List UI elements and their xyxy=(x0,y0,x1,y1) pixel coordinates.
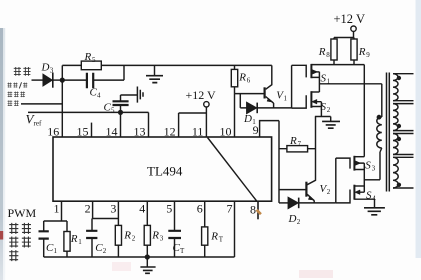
svg-text:1: 1 xyxy=(78,238,82,246)
svg-text:5: 5 xyxy=(92,56,96,64)
svg-text:1: 1 xyxy=(54,247,58,255)
svg-text:+12 V: +12 V xyxy=(334,12,365,26)
svg-text:10: 10 xyxy=(220,124,232,138)
svg-text:R: R xyxy=(84,51,92,63)
svg-text:7: 7 xyxy=(227,201,233,215)
svg-text:4: 4 xyxy=(372,195,376,203)
diode D2 xyxy=(279,202,288,204)
transistor S3 (MOSFET) xyxy=(336,158,350,169)
wire pin4 stub xyxy=(146,201,148,225)
transistor V1 xyxy=(264,87,266,98)
label 保护 xyxy=(14,67,31,76)
+12V terminal (left) xyxy=(204,102,209,107)
transformer secondary winding 2 xyxy=(393,104,414,131)
wire gate riser S1/S2 xyxy=(291,65,293,108)
resistor R9 xyxy=(351,39,357,60)
svg-text:2: 2 xyxy=(103,247,107,255)
wire pin15 stub xyxy=(91,123,93,137)
node (junction dot at D3/R5/C4/pin16) xyxy=(60,78,65,83)
wire pin6 stub xyxy=(204,201,206,227)
svg-text:TL494: TL494 xyxy=(147,164,183,179)
red mark left edge xyxy=(0,231,3,240)
svg-text:14: 14 xyxy=(106,124,118,138)
svg-text:12: 12 xyxy=(164,124,176,138)
svg-text:3: 3 xyxy=(160,235,164,243)
transformer secondary winding 3 xyxy=(393,134,414,155)
diode D1 xyxy=(240,94,247,108)
svg-text:2: 2 xyxy=(132,235,136,243)
wire S3 source / S4 drain midpoint xyxy=(363,163,365,186)
+12V terminal (right) xyxy=(351,26,356,31)
transistor S2 (MOSFET) xyxy=(292,95,307,108)
svg-text:R: R xyxy=(210,231,218,243)
svg-text:+12 V: +12 V xyxy=(186,88,217,102)
svg-text:3: 3 xyxy=(50,67,54,75)
ground (sideways, at C5) xyxy=(137,87,143,103)
svg-text:8: 8 xyxy=(250,202,256,216)
wire pin8 stub xyxy=(257,201,259,219)
capacitor C4 xyxy=(62,65,124,80)
resistor R8 xyxy=(331,39,337,60)
svg-text:D: D xyxy=(243,113,252,125)
wire top rail left xyxy=(62,64,81,66)
ground (bottom rail) xyxy=(146,257,148,267)
svg-text:D: D xyxy=(288,213,297,225)
svg-text:2: 2 xyxy=(327,106,331,114)
label 调整 xyxy=(9,223,31,234)
node (dot bottom rail) xyxy=(145,254,150,259)
label 压切换 xyxy=(8,91,26,97)
wire pin10 stub xyxy=(234,94,236,137)
svg-text:5: 5 xyxy=(111,107,115,115)
svg-text:6: 6 xyxy=(197,201,203,215)
capacitor C5 xyxy=(121,95,138,112)
svg-text:2: 2 xyxy=(297,218,301,226)
wire S4 source to ground xyxy=(354,199,374,207)
svg-text:15: 15 xyxy=(77,124,89,138)
svg-text:R: R xyxy=(238,72,246,84)
pin8 orange mark xyxy=(257,210,261,214)
svg-text:S: S xyxy=(366,190,372,202)
wire riser to top rail xyxy=(61,65,63,80)
transformer secondary winding 4 xyxy=(393,157,414,188)
svg-text:3: 3 xyxy=(372,165,376,173)
resistor R7 xyxy=(279,148,316,150)
transistor S4 (MOSFET) xyxy=(336,190,350,203)
svg-text:13: 13 xyxy=(134,124,146,138)
label 稳流/稳 xyxy=(7,82,27,88)
resistor RT xyxy=(202,227,208,245)
label 控制 xyxy=(9,236,31,247)
capacitor C2 xyxy=(91,219,93,258)
transformer primary winding xyxy=(377,117,382,148)
wire rail S1 drain to R8 R9 and down xyxy=(311,64,364,66)
wire 保护 to D3 xyxy=(32,79,44,81)
wire 稳流/稳压切换信号 xyxy=(21,103,62,105)
faint pink smudge bottom right xyxy=(299,270,333,278)
wire bottom rail xyxy=(44,256,235,258)
wire top rail (to ground and V1 collector) xyxy=(101,64,271,66)
svg-text:R: R xyxy=(123,230,131,242)
svg-text:PWM: PWM xyxy=(8,206,37,220)
transformer primary feed xyxy=(381,84,383,117)
wire gate drive (D1/V1 emitter to S1 S2 gates) xyxy=(257,107,291,109)
transformer core xyxy=(387,73,390,192)
ground (S4 source) xyxy=(364,208,385,215)
svg-text:T: T xyxy=(180,247,185,255)
wire gate drive (D2/V2 emitter to S3 S4 gates) xyxy=(299,202,336,204)
svg-text:R: R xyxy=(289,135,297,147)
wire pin5 stub xyxy=(174,201,176,231)
ground (top rail) xyxy=(154,65,156,75)
svg-text:2: 2 xyxy=(327,188,331,196)
resistor R1 xyxy=(66,221,68,257)
node (dot at C5/pin14) xyxy=(118,110,123,115)
svg-text:9: 9 xyxy=(366,51,370,59)
svg-text:3: 3 xyxy=(110,201,116,215)
svg-text:1: 1 xyxy=(284,95,288,103)
wire S2 source to ground xyxy=(315,116,331,118)
transformer secondary winding 1 xyxy=(393,74,414,101)
wire pin3 stub xyxy=(117,201,119,225)
wire pin1 stub xyxy=(44,201,67,221)
faint pink smudge bottom left xyxy=(112,262,131,271)
svg-text:R: R xyxy=(151,230,159,242)
svg-text:R: R xyxy=(70,233,78,245)
wire pin7 stub xyxy=(234,201,236,257)
resistor R5 xyxy=(81,61,101,70)
wire V1 base line xyxy=(235,93,265,95)
svg-text:R: R xyxy=(318,46,326,58)
op-amp U1 TL494 box xyxy=(53,137,272,201)
svg-text:D: D xyxy=(41,62,50,74)
resistor R3 xyxy=(144,225,150,245)
diode D3 xyxy=(43,75,52,86)
resistor R2 xyxy=(115,225,121,245)
page edge strip left xyxy=(0,28,3,280)
svg-text:ref: ref xyxy=(34,120,42,128)
svg-text:S: S xyxy=(321,73,327,85)
capacitor CT xyxy=(168,231,181,238)
wire midpoint S1/S2 to transformer primary xyxy=(319,83,381,85)
capacitor C1 xyxy=(43,221,45,257)
svg-text:T: T xyxy=(219,236,224,244)
wire pin9 stub xyxy=(260,121,279,203)
wire pin11 stub from +12V xyxy=(205,107,207,137)
svg-text:2: 2 xyxy=(85,201,91,215)
label 信号 xyxy=(8,100,19,106)
label 端 xyxy=(9,250,18,261)
resistor R6 xyxy=(234,65,236,93)
svg-text:11: 11 xyxy=(192,124,204,138)
svg-text:16: 16 xyxy=(47,124,59,138)
node (primary polarity dot) xyxy=(377,115,382,120)
svg-text:1: 1 xyxy=(54,201,60,215)
svg-text:4: 4 xyxy=(97,92,101,100)
wire pin16 vertical xyxy=(61,80,63,137)
svg-text:5: 5 xyxy=(166,201,172,215)
wire Vref to pins 14/13 xyxy=(28,111,149,113)
ground (S2 source) xyxy=(330,117,332,122)
wire pin2 stub + bridge pins 2-3 xyxy=(93,201,119,218)
transistor S1 (MOSFET) xyxy=(292,65,307,77)
svg-text:6: 6 xyxy=(247,77,251,85)
wire diagonal inside TL494 xyxy=(208,138,257,202)
page edge strip right xyxy=(416,0,421,258)
svg-text:R: R xyxy=(358,46,366,58)
wire pin14 stub xyxy=(120,112,122,136)
svg-text:8: 8 xyxy=(326,51,330,59)
wire pin12 stub xyxy=(179,113,207,137)
svg-text:4: 4 xyxy=(139,201,145,215)
wire gate riser S3/S4 xyxy=(335,158,337,203)
svg-text:7: 7 xyxy=(298,140,302,148)
svg-text:S: S xyxy=(365,160,371,172)
wire right vertical rail to S3 drain xyxy=(363,65,365,157)
wire pin13 stub xyxy=(148,112,150,136)
svg-text:S: S xyxy=(321,101,327,113)
transistor V2 xyxy=(307,117,315,185)
svg-text:1: 1 xyxy=(327,78,331,86)
svg-text:1: 1 xyxy=(252,118,256,126)
